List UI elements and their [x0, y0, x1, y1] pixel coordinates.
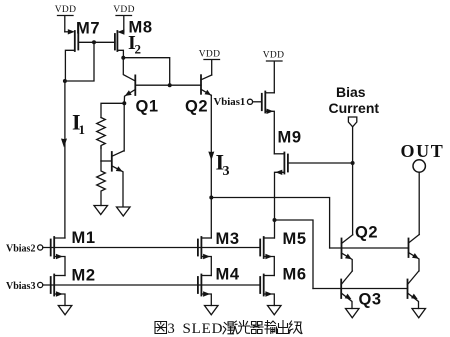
wire: Vbias2 gate rail: [43, 247, 260, 249]
wire: Vbias3 gate rail: [43, 284, 260, 286]
wire: M10 gate to bias node: [288, 162, 353, 164]
svg-text:Q2: Q2: [185, 98, 208, 116]
svg-text:M6: M6: [283, 266, 307, 284]
svg-text:1: 1: [79, 122, 86, 137]
wire: left rail (M7 drain to M1 drain): [64, 81, 66, 238]
node: I1 junction dot: [63, 79, 67, 83]
node: bias junction: [351, 161, 355, 235]
transistor Q2 (upper NPN): [201, 75, 212, 95]
svg-text:VDD: VDD: [113, 5, 134, 15]
ground (Q3 emitter): [346, 309, 360, 318]
transistor M1: [51, 237, 65, 276]
svg-text:3: 3: [168, 321, 175, 337]
terminal symbol (Bias Current): [348, 117, 356, 163]
svg-text:Vbias3: Vbias3: [6, 281, 35, 292]
ground (M4 source): [205, 306, 219, 315]
transistor M8 (PMOS): [115, 29, 125, 57]
svg-text:M1: M1: [72, 229, 96, 247]
transistor M5: [260, 237, 274, 276]
current label I3: [216, 150, 230, 180]
transistor Q4 (output follower upper): [409, 235, 420, 272]
hanzi 器: [251, 322, 264, 334]
svg-text:M7: M7: [76, 20, 100, 38]
svg-text:VDD: VDD: [55, 5, 76, 15]
svg-text:M2: M2: [72, 267, 96, 285]
transistor Q2 (output pair): [342, 235, 353, 271]
transistor M9: [262, 92, 275, 154]
ground (M6 source): [268, 306, 282, 315]
svg-text:SLED: SLED: [183, 321, 224, 337]
wire: R1 to base node: [100, 147, 102, 162]
current arrow I3 on center wire: [208, 152, 214, 161]
transistor Q5 (output follower lower): [408, 271, 419, 309]
hanzi 出: [278, 321, 289, 334]
svg-text:OUT: OUT: [401, 141, 445, 161]
transistor M2: [51, 275, 65, 306]
wire: Q3/Q5 base line: [313, 288, 408, 290]
VDD supply (M8): [113, 5, 134, 32]
hanzi 级: [289, 321, 302, 334]
hanzi 输: [265, 321, 277, 334]
ground (below R2): [94, 206, 108, 215]
port Vbias2: [6, 244, 43, 255]
port Vbias3: [6, 281, 43, 292]
svg-text:Current: Current: [329, 100, 380, 116]
svg-text:VDD: VDD: [199, 50, 220, 60]
port OUT: [401, 141, 445, 235]
node: I3 branch junction: [209, 196, 329, 249]
wire: M7/M8 shared gate line: [78, 41, 115, 43]
hanzi 光: [238, 321, 250, 334]
node: Q1 base junction: [168, 83, 201, 87]
hanzi 图: [155, 322, 167, 334]
hanzi 激: [223, 321, 237, 334]
resistor R1: [97, 118, 106, 149]
wire: Q2/Q4 base line: [330, 247, 409, 249]
node: gate tie-down junction: [65, 40, 96, 81]
transistor M6: [260, 275, 274, 306]
current arrow I1 on left wire: [61, 139, 67, 148]
current label I1: [72, 110, 85, 138]
svg-text:Q3: Q3: [359, 291, 382, 309]
svg-text:M5: M5: [283, 230, 307, 248]
svg-text:Bias: Bias: [336, 84, 366, 100]
svg-text:M3: M3: [216, 230, 240, 248]
svg-text:M4: M4: [216, 266, 240, 284]
transistor M7 (PMOS, diode-connected): [65, 29, 79, 81]
current label I2: [128, 32, 141, 57]
svg-text:Vbias2: Vbias2: [6, 244, 35, 255]
port Vbias1: [214, 96, 262, 108]
svg-text:Q1: Q1: [136, 98, 159, 116]
svg-text:2: 2: [135, 42, 142, 57]
node: Q1 emitter junction: [101, 101, 126, 151]
transistor M4: [198, 275, 211, 306]
transistor Qb (bias NPN): [101, 151, 124, 206]
transistor Q1 (NPN, mirrored): [123, 58, 169, 103]
ground (M2 source): [58, 306, 72, 315]
transistor M10 (mirrored cascode): [275, 153, 288, 221]
VDD supply (Q2 upper): [199, 50, 220, 76]
svg-text:M9: M9: [278, 129, 302, 147]
transistor Q3 (output pair): [341, 271, 352, 309]
resistor R2: [97, 161, 106, 206]
svg-text:3: 3: [223, 164, 230, 179]
port Bias Current: [329, 84, 380, 116]
ground (below Qb emitter): [117, 207, 131, 216]
VDD supply (M9): [263, 51, 284, 93]
svg-text:VDD: VDD: [263, 51, 284, 61]
svg-text:Vbias1: Vbias1: [214, 96, 246, 108]
svg-text:Q2: Q2: [355, 224, 378, 242]
caption: 图3 SLED激光器输出级: [155, 321, 302, 337]
node: M8 drain / Q1 collector junction: [121, 56, 169, 85]
transistor M3: [198, 237, 211, 276]
wire: Q2 emitter / I3 rail down to M3 drain: [210, 95, 212, 238]
node: M5 drain branch junction: [273, 218, 314, 289]
ground (Q5 emitter): [412, 309, 426, 318]
VDD supply (M7): [55, 5, 76, 32]
